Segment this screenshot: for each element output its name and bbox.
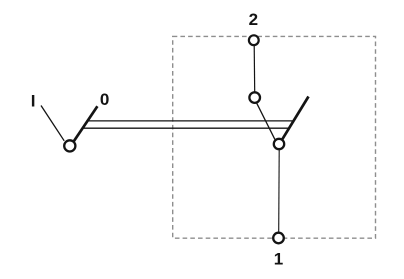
wire from pivot down to node 1: [278, 149, 281, 232]
pivot contact circle (right switch): [274, 139, 284, 149]
terminal node 1 circle: [273, 233, 284, 244]
svg-text:0: 0: [100, 90, 109, 109]
left pivot circle: [64, 140, 75, 151]
left switch lever: [74, 106, 98, 141]
dashed enclosure box: [173, 36, 376, 238]
wire from upper contact to pivot: [256, 103, 275, 140]
coupling bar bottom wire: [83, 127, 290, 129]
svg-text:I: I: [31, 92, 36, 111]
wire from node 2 to upper contact: [253, 45, 256, 92]
svg-text:1: 1: [274, 249, 283, 268]
wire from label I toward left pivot: [41, 106, 64, 141]
right switch lever: [282, 97, 309, 140]
upper contact circle: [249, 92, 260, 103]
svg-text:2: 2: [249, 10, 258, 29]
coupling bar top wire: [87, 120, 294, 122]
terminal node 2 circle: [249, 35, 259, 45]
